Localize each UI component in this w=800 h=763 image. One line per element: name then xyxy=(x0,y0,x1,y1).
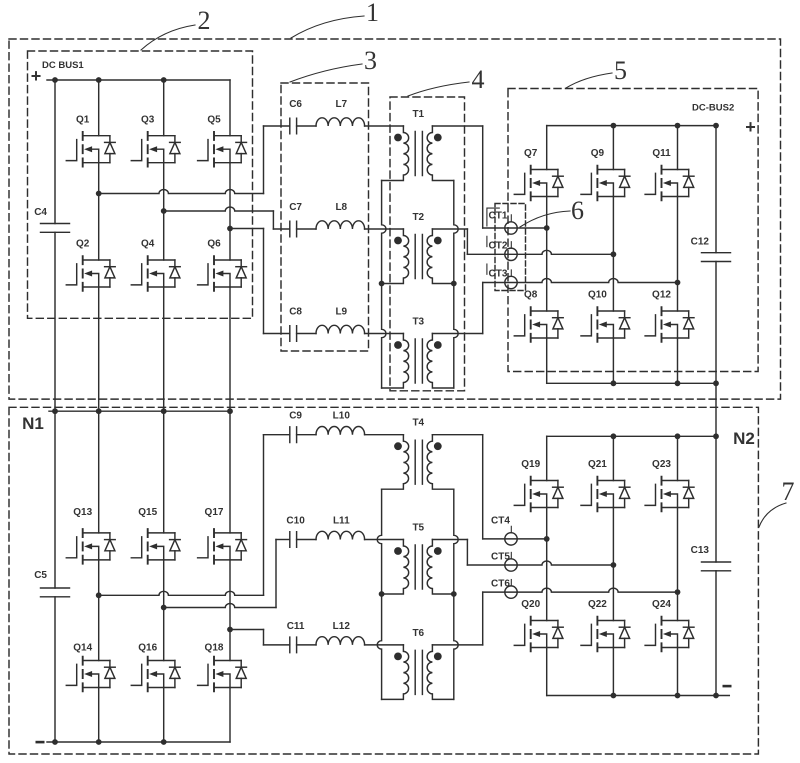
wire Q9 drain column xyxy=(612,126,614,170)
transistor Q5 (MOSFET with body diode) xyxy=(198,132,247,167)
wire Q1 drain column xyxy=(98,80,100,136)
wire Q7 source to CT node xyxy=(546,197,548,229)
svg-text:C4: C4 xyxy=(34,207,47,218)
node CT6 output / Q23 column xyxy=(675,589,681,595)
svg-text:Q17: Q17 xyxy=(205,507,224,518)
svg-text:Q6: Q6 xyxy=(207,239,221,250)
minus terminal bottom-left xyxy=(36,741,45,744)
node N1 / Q15 column xyxy=(161,408,167,414)
wire Q24 source to bottom rail xyxy=(677,648,679,696)
wire C9 to L10 xyxy=(297,434,316,436)
dashed region box 3 (LC resonant network) xyxy=(281,83,369,351)
wire Q12 drain from CT node xyxy=(677,283,679,312)
wire phase C row xyxy=(230,228,264,230)
svg-text:Q4: Q4 xyxy=(141,239,155,250)
svg-text:Q12: Q12 xyxy=(652,290,671,301)
svg-text:Q22: Q22 xyxy=(588,599,607,610)
svg-text:C7: C7 xyxy=(289,202,302,213)
svg-text:6: 6 xyxy=(571,196,584,225)
wire Q4 drain from phase node xyxy=(163,211,165,260)
transistor Q16 (MOSFET with body diode) xyxy=(131,657,180,692)
node bottom rail / Q10 xyxy=(611,380,617,386)
node top rail / Q21 xyxy=(611,433,617,439)
wire DC-BUS2 negative to lower module xyxy=(715,383,717,436)
wire Q18 source to bottom rail xyxy=(229,688,231,743)
wire phase B riser down xyxy=(272,211,274,229)
svg-text:7: 7 xyxy=(782,477,795,506)
wire Q6 source down to N1 rail xyxy=(229,287,231,411)
wire T2 secondary output to CT2 xyxy=(432,228,467,230)
wire lower bridge bottom rail xyxy=(547,695,730,697)
wire Q3 source to phase node xyxy=(163,163,165,211)
transistor Q20 (MOSFET with body diode) xyxy=(514,617,563,652)
svg-text:CT4: CT4 xyxy=(491,516,510,527)
wire row C10 left stub xyxy=(276,539,290,541)
wire Q12 source to bottom rail xyxy=(677,338,679,383)
wire Q3 drain column xyxy=(163,80,165,136)
wire L12 to transformer xyxy=(365,644,404,646)
node top rail / Q11 xyxy=(675,123,681,129)
current sensor CT1 xyxy=(505,222,517,234)
svg-text:Q18: Q18 xyxy=(205,643,224,654)
svg-text:C8: C8 xyxy=(289,307,302,318)
wire Q24 drain from CT node xyxy=(677,592,679,620)
wire C4 column upper xyxy=(54,80,56,224)
capacitor C13 plates xyxy=(702,562,731,571)
wire T6 secondary output to CT6 xyxy=(432,644,482,646)
svg-text:L12: L12 xyxy=(333,621,351,632)
svg-text:CT3: CT3 xyxy=(489,269,508,280)
current sensor CT4 xyxy=(505,533,517,545)
svg-text:C11: C11 xyxy=(287,621,305,632)
node CT3 output / Q11 column xyxy=(675,280,681,286)
wire Q2 source down to N1 rail xyxy=(98,287,100,411)
transistor Q2 (MOSFET with body diode) xyxy=(66,256,115,291)
svg-text:Q10: Q10 xyxy=(588,290,607,301)
dashed region box 7 (bottom converter module) xyxy=(9,407,758,754)
node bottom rail / C13 column xyxy=(713,693,719,699)
wire Q6 drain from phase node xyxy=(229,229,231,261)
inductor L10 xyxy=(316,426,365,434)
wire L11 to transformer xyxy=(365,539,404,541)
wire Q8 source to bottom rail xyxy=(546,338,548,383)
wire primary star chain (bottom) xyxy=(377,489,381,699)
svg-text:Q8: Q8 xyxy=(524,290,538,301)
node phase junction Q13/Q14 xyxy=(96,592,102,598)
svg-text:C5: C5 xyxy=(34,570,47,581)
svg-text:Q2: Q2 xyxy=(76,239,90,250)
wire Q11 source to CT node xyxy=(677,197,679,283)
wire C4 column lower to N1 xyxy=(54,232,56,411)
node N1 / Q17 column xyxy=(227,408,233,414)
svg-text:L7: L7 xyxy=(335,99,347,110)
svg-text:Q19: Q19 xyxy=(521,459,540,470)
svg-text:+: + xyxy=(31,66,42,86)
node CT2 output / Q9 column xyxy=(611,251,617,257)
dashed region box 4 (transformer group T1-T3) xyxy=(390,97,465,391)
node secondary star point (bottom) xyxy=(451,591,457,597)
node N1 / C5 column xyxy=(52,408,58,414)
wire Q19 source to CT node xyxy=(546,508,548,539)
node bottom rail / Q14 xyxy=(96,739,102,745)
wire Q13 drain column xyxy=(98,411,100,533)
svg-text:C12: C12 xyxy=(691,237,710,248)
svg-text:C6: C6 xyxy=(289,99,302,110)
node phase junction Q5/Q6 xyxy=(227,226,233,232)
wire C12 column lower xyxy=(715,262,717,384)
svg-text:+: + xyxy=(745,117,756,137)
wire C10 to L11 xyxy=(297,539,316,541)
transistor Q9 (MOSFET with body diode) xyxy=(581,166,630,201)
wire primary star chain (top) xyxy=(382,181,386,389)
wire secondary star chain (top) xyxy=(454,181,458,389)
wire C6 to L7 xyxy=(297,125,316,127)
wire Q17 drain column xyxy=(229,411,231,533)
transistor Q8 (MOSFET with body diode) xyxy=(514,307,563,342)
wire Q5 drain column xyxy=(229,80,231,136)
svg-text:T1: T1 xyxy=(412,109,424,120)
capacitor C10 xyxy=(290,532,297,548)
svg-text:4: 4 xyxy=(472,65,485,94)
svg-text:Q13: Q13 xyxy=(73,507,92,518)
capacitor C7 xyxy=(290,221,297,237)
wire row C11 left stub xyxy=(264,644,290,646)
svg-text:CT6: CT6 xyxy=(491,579,510,590)
transistor Q12 (MOSFET with body diode) xyxy=(645,307,694,342)
wire Q15 drain column xyxy=(163,411,165,533)
wire lower bridge top rail xyxy=(547,435,716,437)
wire Q21 drain column xyxy=(612,436,614,480)
wire C8 to L9 xyxy=(297,333,316,335)
wire phase B row xyxy=(164,207,274,211)
transistor Q13 (MOSFET with body diode) xyxy=(66,529,115,564)
wire Q1 source to phase node xyxy=(98,163,100,194)
node primary star point (bottom) xyxy=(379,591,385,597)
wire Q17 source to phase node xyxy=(229,560,231,630)
transistor Q7 (MOSFET with body diode) xyxy=(514,166,563,201)
transistor Q10 (MOSFET with body diode) xyxy=(581,307,630,342)
wire phase A riser xyxy=(263,126,265,194)
wire L9 to transformer xyxy=(365,333,404,335)
inductor L11 xyxy=(316,531,365,539)
wire Q23 drain column xyxy=(677,436,679,480)
wire Q15 source to phase node xyxy=(163,560,165,608)
transformer T5 xyxy=(382,540,454,595)
wire L10 to transformer xyxy=(365,434,404,436)
wire phase C riser down to LC row 3 xyxy=(263,229,265,334)
svg-text:C13: C13 xyxy=(691,545,710,556)
node top rail / C4 xyxy=(52,77,58,83)
inductor L7 xyxy=(316,118,365,126)
wire phase c riser down xyxy=(263,630,265,645)
svg-text:Q5: Q5 xyxy=(207,115,221,126)
svg-text:Q9: Q9 xyxy=(591,148,605,159)
wire bottom-left bridge negative rail xyxy=(47,741,230,743)
wire T4 secondary output to CT4 xyxy=(432,434,482,436)
transistor Q22 (MOSFET with body diode) xyxy=(581,617,630,652)
wire T5 secondary output to CT5 xyxy=(432,539,467,541)
svg-text:T5: T5 xyxy=(412,523,424,534)
svg-text:Q1: Q1 xyxy=(76,115,90,126)
dashed region box 6 (current sensors CT1-CT3) xyxy=(495,204,526,291)
wire Q19 drain column xyxy=(546,436,548,480)
svg-text:Q16: Q16 xyxy=(138,643,157,654)
svg-text:DC BUS1: DC BUS1 xyxy=(42,60,84,71)
svg-text:T4: T4 xyxy=(412,418,424,429)
node top rail / C13 column xyxy=(713,433,719,439)
node top rail / Q3 xyxy=(161,77,167,83)
svg-text:Q11: Q11 xyxy=(652,148,671,159)
wire Q8 drain from CT node xyxy=(546,228,548,311)
wire phase a riser up xyxy=(263,435,265,596)
svg-text:T3: T3 xyxy=(412,317,424,328)
current sensor CT2 xyxy=(505,248,517,260)
transformer T2 xyxy=(382,229,454,284)
node top rail / Q9 xyxy=(611,123,617,129)
transformer T4 xyxy=(382,435,454,490)
transistor Q15 (MOSFET with body diode) xyxy=(131,529,180,564)
wire top rail DC BUS1 xyxy=(47,79,230,81)
wire Q16 drain from phase node xyxy=(163,608,165,661)
svg-text:L9: L9 xyxy=(335,307,347,318)
svg-text:N1: N1 xyxy=(22,414,44,433)
inductor L9 xyxy=(316,325,365,333)
wire Q5 source to phase node xyxy=(229,163,231,229)
node CT1 output / Q7 column xyxy=(544,225,550,231)
svg-text:Q24: Q24 xyxy=(652,599,671,610)
transformer T3 xyxy=(382,334,454,389)
wire phase b row xyxy=(164,604,276,608)
svg-text:Q20: Q20 xyxy=(521,599,540,610)
capacitor C9 xyxy=(290,427,297,443)
capacitor C8 xyxy=(290,326,297,342)
wire C13 column lower xyxy=(715,571,717,696)
wire T3 secondary output to CT3 xyxy=(432,333,482,335)
svg-text:CT2: CT2 xyxy=(489,241,508,252)
dashed region box 1 (top converter module) xyxy=(9,39,781,399)
svg-text:C9: C9 xyxy=(289,411,302,422)
capacitor C4 plates xyxy=(41,224,70,233)
transistor Q3 (MOSFET with body diode) xyxy=(131,132,180,167)
wire row C9 left stub xyxy=(264,434,290,436)
node top rail / Q23 xyxy=(675,433,681,439)
transistor Q21 (MOSFET with body diode) xyxy=(581,477,630,512)
node bottom rail / C12 column xyxy=(713,380,719,386)
node secondary star point (top) xyxy=(451,281,457,287)
inductor L12 xyxy=(316,637,365,645)
wire C13 column upper xyxy=(715,436,717,562)
inductor L8 xyxy=(316,221,365,229)
wire Q10 source to bottom rail xyxy=(612,338,614,383)
wire C7 to L8 xyxy=(297,228,316,230)
svg-text:Q7: Q7 xyxy=(524,148,538,159)
wire Q13 source to phase node xyxy=(98,560,100,595)
wire DC-BUS2 top rail xyxy=(547,125,716,127)
node phase junction Q1/Q2 xyxy=(96,191,102,197)
svg-text:CT5: CT5 xyxy=(491,552,510,563)
wire L8 to transformer xyxy=(365,228,404,230)
svg-text:2: 2 xyxy=(198,6,211,35)
node bottom rail / Q12 xyxy=(675,380,681,386)
svg-text:1: 1 xyxy=(366,0,379,27)
node bottom rail / C5 xyxy=(52,739,58,745)
svg-text:L8: L8 xyxy=(335,202,347,213)
wire Q10 drain from CT node xyxy=(612,254,614,311)
wire DC-BUS2 bottom rail xyxy=(547,382,716,384)
wire row C7 left stub xyxy=(273,228,289,230)
current sensor CT3 xyxy=(505,276,517,288)
wire C12 column upper xyxy=(715,126,717,253)
svg-text:Q15: Q15 xyxy=(138,507,157,518)
transistor Q24 (MOSFET with body diode) xyxy=(645,617,694,652)
wire Q16 source to bottom rail xyxy=(163,688,165,743)
wire Q4 source down to N1 rail xyxy=(163,287,165,411)
node bottom rail / Q24 xyxy=(675,693,681,699)
wire C11 to L12 xyxy=(297,644,316,646)
wire Q9 source to CT node xyxy=(612,197,614,255)
wire Q22 drain from CT node xyxy=(612,565,614,621)
wire C5 column upper xyxy=(54,411,56,588)
transistor Q14 (MOSFET with body diode) xyxy=(66,657,115,692)
transistor Q1 (MOSFET with body diode) xyxy=(66,132,115,167)
current sensor CT6 xyxy=(505,586,517,598)
wire row C6 left stub xyxy=(264,125,290,127)
dashed region box 2 (DC BUS1 inverter bridge) xyxy=(28,51,253,318)
capacitor C11 xyxy=(290,637,297,653)
capacitor C6 xyxy=(290,118,297,134)
svg-text:C10: C10 xyxy=(286,516,305,527)
svg-text:L10: L10 xyxy=(333,411,351,422)
transformer T6 xyxy=(382,645,454,700)
svg-text:N2: N2 xyxy=(733,429,755,448)
svg-text:Q14: Q14 xyxy=(73,643,92,654)
transistor Q4 (MOSFET with body diode) xyxy=(131,256,180,291)
svg-text:Q21: Q21 xyxy=(588,459,607,470)
capacitor C5 plates xyxy=(41,588,70,597)
node bottom rail / Q22 xyxy=(611,693,617,699)
wire phase b riser up xyxy=(275,540,277,608)
wire Q21 source to CT node xyxy=(612,508,614,566)
node CT5 output / Q21 column xyxy=(611,562,617,568)
wire Q22 source to bottom rail xyxy=(612,648,614,696)
transformer T1 xyxy=(382,126,454,181)
dashed region box 5 (DC-BUS2 rectifier bridge) xyxy=(508,89,758,372)
wire N1 rail xyxy=(49,410,230,412)
svg-text:CT1: CT1 xyxy=(489,211,508,222)
node top rail / Q1 xyxy=(96,77,102,83)
transistor Q17 (MOSFET with body diode) xyxy=(198,529,247,564)
node phase junction Q3/Q4 xyxy=(161,208,167,214)
minus terminal bottom-right xyxy=(723,685,732,688)
wire Q23 source to CT node xyxy=(677,508,679,593)
svg-text:DC-BUS2: DC-BUS2 xyxy=(692,103,734,114)
svg-text:Q23: Q23 xyxy=(652,459,671,470)
wire L7 to transformer xyxy=(365,125,404,127)
capacitor C12 plates xyxy=(702,253,731,262)
node phase junction Q15/Q16 xyxy=(161,605,167,611)
transistor Q11 (MOSFET with body diode) xyxy=(645,166,694,201)
node phase junction Q17/Q18 xyxy=(227,627,233,633)
wire Q14 source to bottom rail xyxy=(98,688,100,743)
svg-text:3: 3 xyxy=(364,46,377,75)
wire phase A row to LC row 1 xyxy=(99,190,264,194)
svg-text:T6: T6 xyxy=(412,628,424,639)
transistor Q19 (MOSFET with body diode) xyxy=(514,477,563,512)
wire secondary star chain (bottom) xyxy=(454,489,458,699)
wire Q14 drain from phase node xyxy=(98,595,100,660)
node bottom rail / Q16 xyxy=(161,739,167,745)
wire Q20 source to bottom rail xyxy=(546,648,548,696)
wire Q7 drain column xyxy=(546,126,548,170)
transistor Q18 (MOSFET with body diode) xyxy=(198,657,247,692)
node primary star point (top) xyxy=(379,281,385,287)
wire phase a row to LC row 4 xyxy=(99,591,264,595)
wire Q11 drain column xyxy=(677,126,679,170)
node N1 / Q13 column xyxy=(96,408,102,414)
svg-text:T2: T2 xyxy=(412,212,424,223)
node CT4 output / Q19 column xyxy=(544,536,550,542)
wire phase c row xyxy=(230,629,264,631)
wire Q18 drain from phase node xyxy=(229,630,231,661)
wire row C8 left stub xyxy=(264,333,290,335)
svg-text:Q3: Q3 xyxy=(141,115,155,126)
wire T1 secondary output to CT1 xyxy=(432,125,482,127)
wire Q20 drain from CT node xyxy=(546,539,548,621)
node top rail / C12 column xyxy=(713,123,719,129)
wire C5 column lower xyxy=(54,597,56,742)
transistor Q6 (MOSFET with body diode) xyxy=(198,256,247,291)
svg-text:L11: L11 xyxy=(333,516,350,527)
svg-text:5: 5 xyxy=(614,56,627,85)
transistor Q23 (MOSFET with body diode) xyxy=(645,477,694,512)
wire Q2 drain from phase node xyxy=(98,194,100,261)
current sensor CT5 xyxy=(505,559,517,571)
